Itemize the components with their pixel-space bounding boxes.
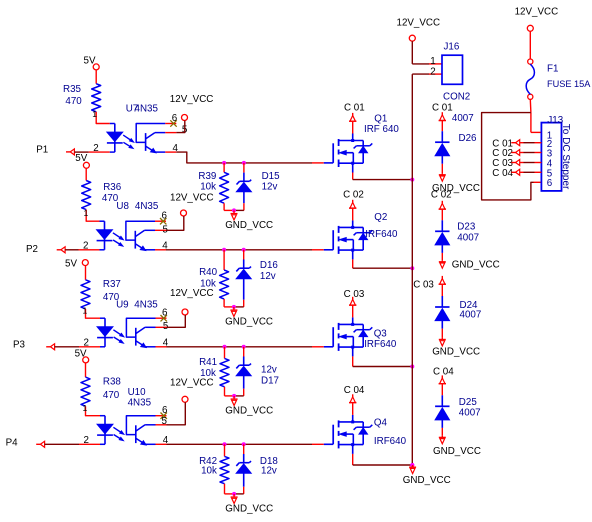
pin 6 no-connect X xyxy=(170,120,176,126)
svg-text:12v: 12v xyxy=(260,271,276,282)
wire xyxy=(86,406,101,416)
ground GND_VCC (D25) xyxy=(441,436,443,438)
ground GND_VCC (bus) xyxy=(412,465,414,467)
ground GND_VCC (channel 1) xyxy=(233,210,235,213)
wire xyxy=(352,454,354,465)
svg-text:C 01: C 01 xyxy=(432,103,453,114)
svg-text:10k: 10k xyxy=(201,465,217,476)
junction xyxy=(410,266,414,270)
svg-text:C 04: C 04 xyxy=(433,367,454,378)
resistor R36 470 xyxy=(85,168,87,180)
wire xyxy=(352,356,354,366)
svg-text:5V: 5V xyxy=(65,259,77,270)
svg-text:D26: D26 xyxy=(459,133,478,144)
pin 6 no-connect X xyxy=(161,315,167,321)
svg-text:IRF640: IRF640 xyxy=(374,436,407,447)
wire xyxy=(352,173,354,180)
svg-text:12v: 12v xyxy=(261,465,277,476)
n-mosfet Q2 IRF640 xyxy=(324,249,333,251)
svg-text:J16: J16 xyxy=(444,41,460,52)
svg-text:1: 1 xyxy=(430,56,435,67)
wire xyxy=(520,171,524,173)
fuse F1 FUSE 15A xyxy=(528,59,533,64)
pin 6 no-connect X xyxy=(160,218,166,224)
wire xyxy=(224,209,234,211)
svg-text:12V_VCC: 12V_VCC xyxy=(397,17,441,28)
svg-text:GND_VCC: GND_VCC xyxy=(225,504,273,515)
connector J16 CON2 xyxy=(442,55,463,84)
svg-text:IRF640: IRF640 xyxy=(364,339,397,350)
svg-text:R38: R38 xyxy=(103,377,122,388)
svg-text:5V: 5V xyxy=(75,349,87,360)
wire xyxy=(65,249,78,251)
resistor R35 470 xyxy=(95,70,97,84)
svg-text:FUSE 15A: FUSE 15A xyxy=(547,79,591,89)
wire xyxy=(96,112,110,124)
svg-text:Q3: Q3 xyxy=(374,328,388,339)
resistor R38 470 xyxy=(85,363,87,377)
svg-text:C 04: C 04 xyxy=(492,168,513,179)
svg-text:GND_VCC: GND_VCC xyxy=(432,347,480,358)
svg-text:4N35: 4N35 xyxy=(135,201,159,212)
svg-text:C 01: C 01 xyxy=(344,102,365,113)
svg-text:To DC Stepper: To DC Stepper xyxy=(560,124,571,190)
n-mosfet Q1 IRF640 xyxy=(324,162,333,164)
svg-text:C 02: C 02 xyxy=(431,190,452,201)
svg-text:4007: 4007 xyxy=(459,408,481,419)
wire xyxy=(176,121,185,133)
svg-text:U9: U9 xyxy=(116,300,129,311)
svg-text:4N35: 4N35 xyxy=(134,300,158,311)
wire xyxy=(412,73,429,75)
svg-text:R40: R40 xyxy=(199,267,218,278)
svg-text:P1: P1 xyxy=(36,145,48,156)
svg-text:6: 6 xyxy=(172,113,178,124)
wire xyxy=(520,162,524,164)
zener diode D16 12v xyxy=(243,250,245,260)
wire xyxy=(167,443,225,445)
svg-text:12v: 12v xyxy=(261,364,277,375)
zener diode D15 12v xyxy=(243,163,245,173)
junction xyxy=(222,248,226,252)
zener diode D17 12v xyxy=(243,347,245,357)
svg-text:GND_VCC: GND_VCC xyxy=(225,220,273,231)
wire xyxy=(225,346,244,348)
wire xyxy=(520,152,524,154)
svg-text:D17: D17 xyxy=(261,375,279,386)
svg-text:4007: 4007 xyxy=(457,233,479,244)
svg-text:12V_VCC: 12V_VCC xyxy=(170,94,214,105)
resistor R41 10k xyxy=(224,347,226,359)
svg-text:R35: R35 xyxy=(63,84,82,95)
svg-text:IRF640: IRF640 xyxy=(365,229,398,240)
svg-text:6: 6 xyxy=(162,211,168,222)
svg-text:P2: P2 xyxy=(26,244,38,255)
svg-text:F1: F1 xyxy=(547,64,558,75)
junction xyxy=(242,442,246,446)
svg-text:R37: R37 xyxy=(103,279,121,290)
wire (loop to pin 6) xyxy=(482,113,534,200)
diode D25 4007 xyxy=(441,384,443,395)
svg-text:D23: D23 xyxy=(457,222,476,233)
ground GND_VCC (D23) xyxy=(441,260,443,262)
svg-text:4007: 4007 xyxy=(452,113,474,124)
ground GND_VCC (D26) xyxy=(441,173,443,175)
wire xyxy=(225,395,235,397)
junction xyxy=(232,208,236,212)
wire xyxy=(225,493,235,495)
resistor R42 10k xyxy=(224,444,226,456)
ground GND_VCC (D24) xyxy=(441,338,443,340)
svg-text:GND_VCC: GND_VCC xyxy=(452,260,500,271)
junction xyxy=(242,248,246,252)
n-mosfet Q4 IRF640 xyxy=(324,443,333,445)
opto-coupler U9 4N35 xyxy=(104,318,106,347)
svg-text:C 03: C 03 xyxy=(344,289,365,300)
svg-text:2: 2 xyxy=(93,143,98,154)
diode D26 4007 xyxy=(441,121,443,131)
wire xyxy=(74,151,88,153)
svg-text:12v: 12v xyxy=(262,181,278,192)
svg-text:GND_VCC: GND_VCC xyxy=(225,406,273,417)
junction xyxy=(410,178,414,182)
junction xyxy=(410,463,414,467)
wire xyxy=(224,249,244,251)
svg-text:12V_VCC: 12V_VCC xyxy=(515,7,559,18)
svg-text:1: 1 xyxy=(83,306,88,316)
ground GND_VCC (channel 4) xyxy=(233,494,235,497)
wire xyxy=(352,209,354,221)
wire xyxy=(411,41,413,64)
svg-text:Q2: Q2 xyxy=(374,212,387,223)
opto-coupler U7 4N35 xyxy=(114,124,116,153)
wire xyxy=(167,346,225,348)
svg-text:D25: D25 xyxy=(459,397,478,408)
wire xyxy=(224,306,234,308)
wire xyxy=(529,99,532,112)
ground GND_VCC (channel 2) xyxy=(233,307,235,310)
svg-text:GND_VCC: GND_VCC xyxy=(403,475,451,486)
diode D23 4007 xyxy=(441,210,443,221)
svg-text:4007: 4007 xyxy=(460,309,482,320)
svg-text:2: 2 xyxy=(430,66,435,77)
svg-text:IRF 640: IRF 640 xyxy=(364,124,399,135)
wire xyxy=(176,152,224,163)
svg-text:1: 1 xyxy=(92,109,97,119)
zener diode D18 12v xyxy=(243,444,245,454)
opto-coupler U10 4N35 xyxy=(104,416,106,445)
svg-text:U8: U8 xyxy=(116,201,129,212)
ground GND_VCC (channel 3) xyxy=(233,396,235,399)
wire xyxy=(520,142,524,144)
svg-text:R41: R41 xyxy=(199,357,217,368)
junction xyxy=(410,463,414,467)
svg-text:C 04: C 04 xyxy=(344,385,365,396)
svg-text:4N35: 4N35 xyxy=(135,104,159,115)
pin 6 no-connect X xyxy=(161,413,167,419)
junction xyxy=(232,492,236,496)
resistor R40 10k xyxy=(223,250,225,270)
wire xyxy=(352,306,354,318)
opto-coupler U8 4N35 xyxy=(104,221,106,250)
junction xyxy=(232,394,236,398)
svg-text:6: 6 xyxy=(547,178,553,189)
svg-text:C 03: C 03 xyxy=(413,279,434,290)
wire xyxy=(86,210,99,222)
n-mosfet Q3 IRF640 xyxy=(324,346,333,348)
svg-text:2: 2 xyxy=(84,435,89,446)
svg-text:12V_VCC: 12V_VCC xyxy=(170,193,214,204)
junction xyxy=(223,442,227,446)
svg-text:12V_VCC: 12V_VCC xyxy=(170,288,214,299)
svg-text:C 02: C 02 xyxy=(343,189,364,200)
junction xyxy=(222,161,226,165)
wire xyxy=(166,249,224,251)
svg-text:470: 470 xyxy=(103,390,120,401)
wire xyxy=(352,122,354,134)
svg-text:GND_VCC: GND_VCC xyxy=(433,446,481,457)
junction xyxy=(232,305,236,309)
wire xyxy=(166,216,184,230)
svg-text:P3: P3 xyxy=(13,340,26,351)
svg-text:10k: 10k xyxy=(200,181,216,192)
svg-text:GND_VCC: GND_VCC xyxy=(225,317,273,328)
svg-text:R36: R36 xyxy=(103,182,122,193)
svg-text:D16: D16 xyxy=(260,260,279,271)
diode D24 4007 xyxy=(441,285,443,296)
svg-text:12V_VCC: 12V_VCC xyxy=(170,378,214,389)
svg-text:Q4: Q4 xyxy=(374,418,388,429)
svg-text:1: 1 xyxy=(83,403,88,413)
wire xyxy=(167,402,186,425)
junction xyxy=(410,365,414,369)
svg-text:2: 2 xyxy=(83,241,88,252)
resistor R39 10k xyxy=(223,163,225,172)
wire xyxy=(55,346,79,348)
connector J13 To DC Stepper xyxy=(541,123,561,191)
wire xyxy=(224,162,244,164)
junction xyxy=(223,345,227,349)
ground bus wire xyxy=(411,74,413,465)
svg-text:2: 2 xyxy=(84,338,89,349)
junction xyxy=(242,345,246,349)
wire xyxy=(352,259,354,268)
svg-text:CON2: CON2 xyxy=(443,92,470,103)
svg-text:4N35: 4N35 xyxy=(128,397,152,408)
svg-text:6: 6 xyxy=(162,405,168,416)
wire xyxy=(225,443,244,445)
wire xyxy=(529,31,531,59)
svg-text:6: 6 xyxy=(162,308,168,319)
resistor R37 470 xyxy=(85,266,87,280)
wire xyxy=(352,403,354,415)
wire xyxy=(86,309,101,318)
wire xyxy=(167,315,186,327)
svg-text:1: 1 xyxy=(84,208,89,218)
svg-text:470: 470 xyxy=(65,96,82,107)
junction xyxy=(242,161,246,165)
wire xyxy=(45,443,79,445)
svg-text:P4: P4 xyxy=(6,438,19,449)
